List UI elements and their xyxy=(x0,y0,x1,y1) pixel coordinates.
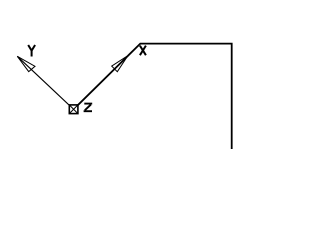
arrowhead Y xyxy=(17,56,35,71)
axis Y shaft xyxy=(17,56,73,109)
origin box Z (into page) xyxy=(69,105,78,114)
label X xyxy=(140,46,146,56)
arrowhead X xyxy=(112,56,128,72)
label Z xyxy=(84,104,93,112)
wire polyline from origin up-right, right, then down xyxy=(74,44,232,149)
label Y xyxy=(28,45,35,57)
